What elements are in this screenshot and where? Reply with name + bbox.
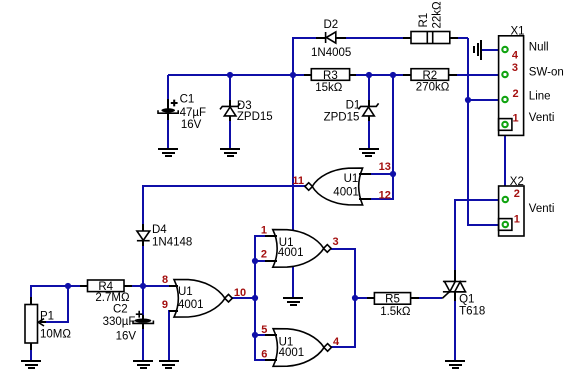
- wire supply row y74: [168, 74, 501, 76]
- wire loop to gate pins 13 12: [370, 75, 393, 199]
- resistor R5: [367, 293, 419, 319]
- svg-text:10: 10: [234, 287, 246, 299]
- svg-text:330µF: 330µF: [103, 316, 136, 328]
- svg-text:1.5kΩ: 1.5kΩ: [380, 306, 411, 318]
- nor gate U1C pins 8 9 10: [169, 280, 232, 318]
- diode D4: [137, 224, 192, 248]
- svg-text:15kΩ: 15kΩ: [315, 82, 343, 94]
- svg-text:47µF: 47µF: [180, 107, 206, 119]
- wire C2 column: [142, 286, 144, 361]
- svg-text:SW-on: SW-on: [529, 67, 564, 79]
- nor gate U1D pins 5 6 4: [265, 329, 331, 367]
- svg-text:4: 4: [512, 50, 519, 62]
- svg-text:2: 2: [513, 88, 519, 100]
- svg-text:4001: 4001: [333, 187, 359, 199]
- ground below gate pin9: [159, 361, 179, 368]
- wire D3 column: [229, 75, 231, 148]
- wire D1 column: [368, 75, 370, 148]
- connector X1: [499, 25, 564, 135]
- svg-text:1: 1: [261, 224, 267, 236]
- svg-text:D4: D4: [152, 224, 167, 236]
- node pin number 2: [261, 249, 267, 261]
- resistor R3: [304, 69, 356, 94]
- wire P1 top row: [31, 286, 80, 298]
- capacitor C2: [103, 304, 154, 343]
- wire gate inputs bus vertical x255: [255, 236, 265, 360]
- svg-text:1: 1: [514, 214, 520, 226]
- svg-text:11: 11: [292, 175, 304, 187]
- svg-text:C1: C1: [180, 93, 195, 105]
- node pin number 4: [333, 336, 340, 348]
- svg-text:2.7MΩ: 2.7MΩ: [95, 292, 130, 304]
- svg-text:5: 5: [261, 324, 267, 336]
- zener diode D1: [324, 100, 379, 124]
- wire X1 pin4 ground stub: [481, 49, 501, 51]
- svg-text:T618: T618: [459, 306, 485, 318]
- svg-text:2: 2: [261, 249, 267, 261]
- ground below D1: [359, 149, 379, 156]
- svg-text:2: 2: [514, 188, 520, 200]
- wire top row D2/R1: [293, 38, 468, 75]
- svg-text:X1: X1: [511, 25, 525, 37]
- diode D2: [311, 19, 351, 59]
- wire vertical from R1 to X2 pin1: [468, 38, 501, 225]
- nor gate U1B pins 1 2 3: [265, 230, 331, 268]
- potentiometer P1: [25, 297, 71, 350]
- svg-text:R2: R2: [422, 70, 437, 82]
- svg-text:22kΩ: 22kΩ: [432, 1, 444, 29]
- svg-text:ZPD15: ZPD15: [237, 111, 273, 123]
- svg-text:Null: Null: [529, 41, 549, 53]
- node pin number 3: [332, 236, 338, 248]
- wire R5 left: [355, 297, 367, 299]
- node pin number 5: [261, 324, 267, 336]
- svg-text:1N4148: 1N4148: [152, 236, 192, 248]
- wire long vertical x293: [292, 38, 294, 297]
- wire gate pin9 to ground: [169, 311, 170, 361]
- ground below C1: [158, 149, 178, 156]
- capacitor C1: [158, 93, 206, 131]
- svg-text:16V: 16V: [116, 331, 137, 343]
- svg-text:10MΩ: 10MΩ: [40, 328, 71, 340]
- wire gate output 11 row: [143, 186, 306, 225]
- wire triac to ground: [454, 300, 456, 361]
- svg-text:13: 13: [379, 161, 391, 173]
- svg-text:9: 9: [162, 299, 168, 311]
- zener diode D3: [220, 100, 273, 123]
- svg-text:U1: U1: [344, 173, 359, 185]
- svg-text:8: 8: [162, 274, 168, 286]
- ground below Q1: [445, 361, 465, 368]
- svg-text:3: 3: [332, 236, 338, 248]
- ground below C2: [133, 361, 153, 368]
- svg-text:R5: R5: [385, 294, 400, 306]
- resistor R4: [80, 280, 132, 304]
- svg-text:1N4005: 1N4005: [311, 47, 351, 59]
- wire D4 to R4 junction: [142, 245, 144, 286]
- svg-text:12: 12: [379, 189, 391, 201]
- ground below P1: [21, 361, 41, 368]
- ground below D3: [220, 149, 240, 156]
- svg-text:R4: R4: [98, 281, 113, 293]
- node pin number 13: [379, 161, 391, 173]
- svg-text:D2: D2: [324, 19, 339, 31]
- resistor R1: [403, 1, 458, 44]
- svg-text:D1: D1: [346, 100, 361, 112]
- wire X1 pin1 to X2 pin2: [504, 127, 506, 196]
- wire gate output 10: [232, 297, 255, 299]
- ground below gate U1B: [283, 298, 303, 305]
- svg-text:X2: X2: [510, 176, 524, 188]
- svg-text:P1: P1: [40, 311, 54, 323]
- svg-text:4001: 4001: [278, 247, 304, 259]
- connector X2 pin circles: [503, 197, 508, 227]
- svg-text:Line: Line: [529, 90, 551, 102]
- wire P1 wiper: [45, 286, 68, 322]
- resistor R2: [403, 69, 457, 94]
- svg-text:U1: U1: [178, 286, 193, 298]
- wire C1 column: [167, 75, 169, 148]
- svg-text:16V: 16V: [181, 119, 202, 131]
- svg-text:1: 1: [513, 113, 519, 125]
- svg-text:4001: 4001: [178, 299, 204, 311]
- wire X2 pin2 row to triac: [455, 200, 501, 272]
- svg-text:C2: C2: [113, 304, 128, 316]
- svg-text:Q1: Q1: [459, 294, 474, 306]
- wire P1 bottom: [30, 349, 32, 361]
- triac Q1: [442, 270, 485, 318]
- wire X1 pin2 branch: [468, 99, 501, 101]
- svg-text:270kΩ: 270kΩ: [416, 81, 450, 93]
- wire R4 to gate pin8: [132, 285, 169, 287]
- svg-text:4001: 4001: [279, 347, 305, 359]
- svg-text:3: 3: [512, 62, 518, 74]
- wire gate output 3 loop: [331, 249, 355, 298]
- nor gate U1A pins 11 13 12: [305, 168, 371, 205]
- svg-text:R3: R3: [323, 70, 338, 82]
- svg-text:Venti: Venti: [529, 203, 555, 215]
- connector X1 pin circles: [502, 47, 507, 127]
- node pin number 12: [379, 189, 391, 201]
- svg-text:R1: R1: [418, 13, 430, 28]
- node pin number 11: [292, 175, 304, 187]
- wire R5 right to triac gate: [419, 297, 442, 299]
- svg-text:4: 4: [333, 336, 340, 348]
- node pin number 9: [162, 299, 168, 311]
- svg-text:ZPD15: ZPD15: [324, 111, 360, 123]
- ground at X1 pin4 rotated: [474, 40, 481, 60]
- node pin number 1: [261, 224, 267, 236]
- node pin number 8: [162, 274, 168, 286]
- node pin number 6: [261, 349, 267, 361]
- svg-text:6: 6: [261, 349, 267, 361]
- connector X2: [499, 176, 555, 236]
- node pin number 10: [234, 287, 246, 299]
- wire gate output 4 loop: [331, 298, 355, 347]
- svg-text:Venti: Venti: [529, 112, 555, 124]
